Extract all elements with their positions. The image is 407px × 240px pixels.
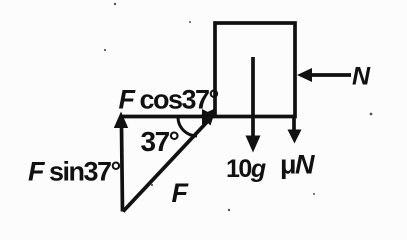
svg-text:10g: 10g bbox=[226, 155, 266, 183]
svg-text:N: N bbox=[352, 63, 371, 91]
svg-text:μN: μN bbox=[280, 150, 315, 180]
svg-text:F sin37°: F sin37° bbox=[28, 157, 121, 187]
svg-text:F cos37°: F cos37° bbox=[119, 85, 219, 115]
svg-text:37°: 37° bbox=[141, 126, 179, 157]
